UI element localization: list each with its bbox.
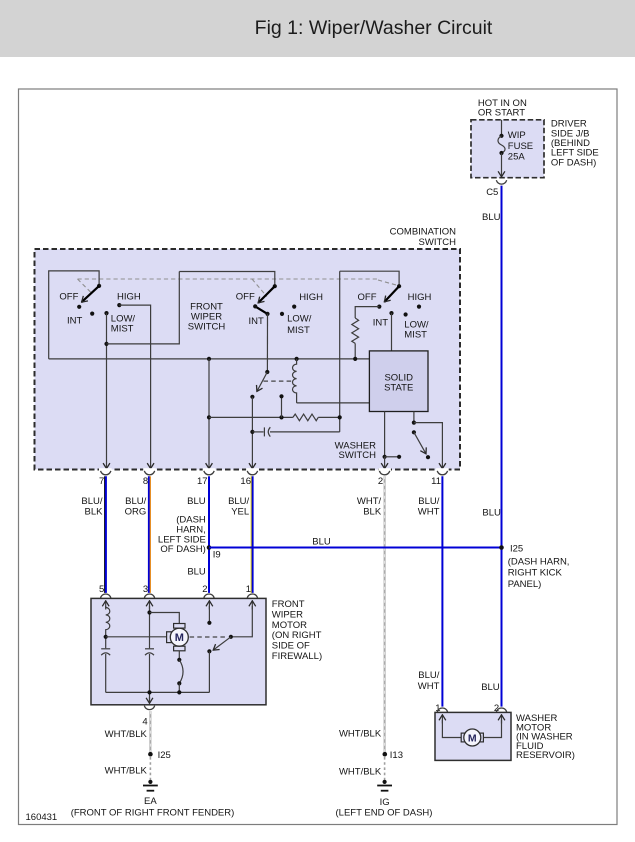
wire relay contact down to pin 16 bbox=[251, 397, 253, 469]
connector cups above front wiper motor bbox=[101, 594, 111, 598]
motor box bottom rail bbox=[106, 691, 210, 693]
entry arrows into washer motor bbox=[441, 715, 443, 724]
S3 contact LOW/MIST bbox=[404, 312, 408, 316]
svg-text:FUSE: FUSE bbox=[508, 141, 533, 152]
svg-text:OF DASH): OF DASH) bbox=[160, 544, 205, 555]
capacitor (noise suppression, pin3 leg) bbox=[145, 648, 154, 650]
svg-text:WHT: WHT bbox=[418, 506, 440, 517]
svg-text:HIGH: HIGH bbox=[299, 292, 323, 303]
connector cups above washer motor bbox=[437, 708, 447, 712]
junction pin17 wire / timing network bbox=[207, 415, 211, 419]
mechanical link relay to coil (dashed) bbox=[264, 380, 294, 382]
svg-text:(DASH HARN,: (DASH HARN, bbox=[508, 556, 570, 567]
svg-text:2: 2 bbox=[202, 584, 207, 595]
capacitor (noise suppression, pin5 leg) bbox=[101, 648, 110, 650]
wire pin 17 drop bbox=[208, 359, 210, 469]
relay switch contact bbox=[250, 395, 254, 399]
svg-text:I9: I9 bbox=[213, 549, 221, 560]
ground EA bbox=[148, 780, 152, 784]
wire I13 to ground IG (dashed) bbox=[384, 757, 386, 780]
wire S1 LOW/MIST contact down to pin 7 bbox=[106, 313, 108, 469]
fuse WIP FUSE 25A bbox=[499, 134, 503, 138]
svg-text:RIGHT KICK: RIGHT KICK bbox=[508, 568, 563, 579]
wire I25 to ground EA (dashed) bbox=[149, 757, 151, 780]
svg-text:11: 11 bbox=[431, 476, 441, 487]
switch S3 pivot bbox=[397, 284, 401, 288]
svg-text:I25: I25 bbox=[158, 750, 171, 761]
svg-text:SWITCH: SWITCH bbox=[188, 322, 226, 333]
wire BLU main feed from C5 to washer motor bbox=[501, 186, 503, 707]
S2 contact LOW/MIST bbox=[280, 312, 284, 316]
svg-text:OFF: OFF bbox=[358, 292, 377, 303]
wire switch 3 top edge to pivot bbox=[340, 271, 399, 286]
wire junction to motor left terminal bbox=[106, 636, 167, 638]
svg-text:WHT/BLK: WHT/BLK bbox=[339, 766, 382, 777]
junction pin5/motor feed bbox=[104, 635, 108, 639]
svg-text:I25: I25 bbox=[510, 543, 523, 554]
svg-text:WIP: WIP bbox=[508, 130, 526, 141]
wire S2 INT contact down to relay pivot bbox=[266, 314, 268, 372]
switch S1 arm (points to OFF) bbox=[82, 286, 100, 302]
svg-text:BLU: BLU bbox=[187, 567, 206, 578]
svg-text:MIST: MIST bbox=[287, 325, 310, 336]
svg-text:7: 7 bbox=[99, 476, 104, 487]
ground IG bbox=[383, 780, 387, 784]
svg-text:INT: INT bbox=[67, 316, 83, 327]
S2 wiper bridge OFF to INT bbox=[255, 306, 267, 314]
svg-text:MOTOR: MOTOR bbox=[272, 620, 307, 631]
wire BLU/WHT pin11 to washer motor pin1 bbox=[441, 476, 443, 706]
linkage drop to switch 2 arm bbox=[252, 279, 267, 297]
junction bus rail / relay coil bbox=[295, 357, 299, 361]
svg-text:PANEL): PANEL) bbox=[508, 579, 542, 590]
wire S3 OFF contact to resistor bbox=[355, 307, 379, 318]
junction bus rail / resistor bbox=[353, 357, 357, 361]
S2 contact OFF bbox=[253, 304, 257, 308]
mechanical linkage dashed line bbox=[78, 278, 379, 280]
svg-text:OFF: OFF bbox=[236, 292, 255, 303]
wire BLU/YEL pin16 to motor pin1 bbox=[250, 476, 252, 593]
S3 contact HIGH bbox=[417, 305, 421, 309]
wire junction to motor top terminal bbox=[150, 613, 180, 624]
svg-text:(ON RIGHT: (ON RIGHT bbox=[272, 630, 322, 641]
svg-text:BLU: BLU bbox=[312, 537, 331, 548]
connector cups below combination switch pins 7 8 17 16 2 11 bbox=[101, 471, 111, 475]
junction box DRIVER SIDE J/B (dashed) bbox=[471, 120, 544, 178]
svg-text:BLU/: BLU/ bbox=[228, 496, 249, 507]
wire timing network left segment bbox=[209, 416, 293, 418]
wire S1 HIGH contact down to pin 8 bbox=[119, 305, 150, 469]
combination switch box (dashed) bbox=[35, 249, 461, 470]
wire BLU/ORG pin8 to motor pin3 bbox=[148, 476, 150, 593]
svg-text:BLU/: BLU/ bbox=[418, 670, 439, 681]
wire WHT/BLK pin2 to ground I13 bbox=[384, 476, 386, 752]
junction pin3 / motor top feed bbox=[147, 610, 151, 614]
wire pin3 drop bbox=[149, 606, 151, 648]
junction on pin7 wire feeding switch 2 bbox=[104, 342, 108, 346]
S1 contact HIGH bbox=[117, 303, 121, 307]
wire feed switch 2 top edge to pivot bbox=[179, 272, 274, 287]
svg-text:M: M bbox=[468, 732, 477, 744]
wire riser feeding switch 3 (down to resistor node) bbox=[339, 271, 341, 432]
svg-text:BLU/: BLU/ bbox=[418, 496, 439, 507]
svg-text:BLK: BLK bbox=[85, 506, 104, 517]
switch S2 arm (points to OFF) bbox=[258, 286, 275, 303]
S2 contact HIGH bbox=[292, 305, 296, 309]
wire fuse to C5 exit arrow bbox=[501, 153, 503, 177]
svg-text:I13: I13 bbox=[390, 750, 403, 761]
front wiper motor box bbox=[91, 598, 266, 704]
linkage drop to switch 3 arm bbox=[378, 280, 397, 285]
wire solid state bottom pin to washer switch bbox=[384, 412, 386, 457]
relay switch arm bbox=[257, 372, 267, 391]
svg-text:16: 16 bbox=[240, 476, 251, 487]
motor armature choke (pin 5) bbox=[106, 606, 110, 648]
svg-text:WIPER: WIPER bbox=[272, 609, 303, 620]
switch S2 pivot bbox=[273, 284, 277, 288]
splice I13 bbox=[383, 752, 388, 757]
switch S1 pivot bbox=[97, 284, 101, 288]
svg-text:ORG: ORG bbox=[125, 506, 147, 517]
washer switch arm pivot bbox=[412, 430, 416, 434]
wire washer switch to pin 2 exit bbox=[384, 457, 386, 469]
wire coil to solid state lower pin bbox=[297, 402, 370, 404]
svg-text:EA: EA bbox=[144, 796, 157, 807]
S1 contact INT bbox=[90, 312, 94, 316]
svg-text:5: 5 bbox=[99, 584, 104, 595]
svg-text:C5: C5 bbox=[486, 187, 498, 198]
wire pin1 to park switch pivot bbox=[233, 606, 252, 637]
svg-text:MIST: MIST bbox=[111, 324, 134, 335]
relay coil (inductor) bbox=[293, 359, 297, 403]
motor M1 (front wiper) bbox=[174, 624, 185, 629]
bus rail across combination switch bbox=[49, 358, 370, 360]
svg-text:SWITCH: SWITCH bbox=[339, 450, 377, 461]
park switch arm bbox=[213, 637, 231, 650]
wire WHT/BLK pin4 to I25 bbox=[149, 711, 151, 752]
svg-text:BLU: BLU bbox=[187, 496, 206, 507]
linkage drop to switch 1 arm bbox=[78, 279, 92, 293]
svg-text:3: 3 bbox=[143, 584, 148, 595]
svg-text:WHT/: WHT/ bbox=[357, 496, 382, 507]
svg-text:FRONT: FRONT bbox=[272, 599, 305, 610]
svg-text:(FRONT OF RIGHT FRONT FENDER): (FRONT OF RIGHT FRONT FENDER) bbox=[71, 807, 235, 818]
svg-text:IG: IG bbox=[380, 797, 390, 808]
svg-text:STATE: STATE bbox=[384, 383, 413, 394]
washer switch arm bbox=[414, 432, 426, 454]
pin 4 exit arrow bbox=[149, 697, 151, 703]
svg-text:25A: 25A bbox=[508, 151, 526, 162]
wires to washer motor terminals bbox=[442, 720, 462, 738]
junction bus rail / pin 17 bbox=[207, 357, 211, 361]
capacitor (wash/wipe timing) bbox=[252, 431, 263, 433]
svg-text:BLU/: BLU/ bbox=[81, 496, 102, 507]
entry arrows into motor box bbox=[105, 601, 107, 610]
svg-text:WHT/BLK: WHT/BLK bbox=[105, 729, 148, 740]
svg-text:8: 8 bbox=[143, 476, 148, 487]
connector cup below pin 4 bbox=[144, 706, 154, 710]
park switch run contact (pin2 stub) bbox=[208, 606, 210, 623]
relay switch pivot bbox=[265, 370, 269, 374]
wire BLU pin17 to motor pin2 bbox=[208, 476, 210, 593]
dashed park-switch link bbox=[190, 636, 228, 638]
S1 contact LOW/MIST bbox=[104, 311, 108, 315]
svg-text:(LEFT END OF DASH): (LEFT END OF DASH) bbox=[336, 808, 433, 819]
splice I25 (right) bbox=[499, 545, 504, 550]
svg-text:SIDE OF: SIDE OF bbox=[272, 641, 310, 652]
svg-text:160431: 160431 bbox=[26, 812, 58, 823]
svg-text:RESERVOIR): RESERVOIR) bbox=[516, 750, 575, 761]
svg-text:1: 1 bbox=[246, 584, 251, 595]
svg-text:INT: INT bbox=[249, 316, 265, 327]
junction resistor line / riser bbox=[338, 415, 342, 419]
resistor (timing network) bbox=[293, 414, 318, 421]
svg-text:WHT/BLK: WHT/BLK bbox=[105, 766, 148, 777]
junction stub contact on resistor line bbox=[279, 415, 283, 419]
park switch pivot bbox=[229, 635, 233, 639]
wire resistor to riser bbox=[318, 416, 340, 418]
motor bottom terminal arc (commutator) bbox=[178, 651, 180, 660]
wire branch to switch 2 feed riser bbox=[107, 272, 180, 344]
svg-text:HIGH: HIGH bbox=[117, 292, 141, 303]
wire BLU branch I9 to I25 bbox=[209, 547, 502, 549]
wire washer feed to pin 11 bbox=[414, 423, 443, 469]
wire solid state bottom pin 2 bbox=[413, 412, 415, 423]
svg-text:M: M bbox=[175, 632, 184, 644]
solid state unit U1 bbox=[369, 351, 428, 412]
splice I9 bbox=[207, 545, 212, 550]
resistor (switch 3 OFF to bus rail) bbox=[352, 318, 359, 343]
svg-text:2: 2 bbox=[378, 476, 383, 487]
wire from HOT feed into fuse bbox=[501, 120, 503, 136]
svg-text:BLU: BLU bbox=[482, 507, 501, 518]
svg-text:SWITCH: SWITCH bbox=[419, 237, 457, 248]
svg-text:OR START: OR START bbox=[478, 107, 525, 118]
svg-text:BLU: BLU bbox=[481, 682, 500, 693]
svg-text:FIREWALL): FIREWALL) bbox=[272, 651, 322, 662]
svg-text:LOW/: LOW/ bbox=[287, 313, 312, 324]
S3 contact OFF bbox=[377, 305, 381, 309]
wire S3 INT contact to solid state top pin bbox=[391, 313, 393, 351]
splice I25 (left) bbox=[148, 752, 153, 757]
washer motor box bbox=[435, 712, 511, 760]
header bar bbox=[0, 0, 635, 57]
switch S3 arm (points to OFF) bbox=[384, 286, 399, 302]
svg-text:BLK: BLK bbox=[363, 506, 382, 517]
svg-text:HIGH: HIGH bbox=[408, 292, 432, 303]
S1 contact OFF bbox=[77, 305, 81, 309]
wire feed to switch 1 pivot from bus rail bbox=[49, 271, 99, 359]
park switch park contact bbox=[207, 649, 211, 653]
white border gaps at pin exits bbox=[99, 468, 112, 471]
washer switch feed node bbox=[412, 421, 416, 425]
svg-text:MIST: MIST bbox=[404, 330, 427, 341]
svg-text:17: 17 bbox=[197, 476, 208, 487]
svg-text:YEL: YEL bbox=[231, 506, 249, 517]
svg-text:OF DASH): OF DASH) bbox=[551, 157, 596, 168]
svg-text:BLU/: BLU/ bbox=[125, 496, 146, 507]
svg-text:BLU: BLU bbox=[482, 212, 501, 223]
svg-text:4: 4 bbox=[142, 717, 147, 728]
motor M2 (washer) bbox=[461, 733, 466, 742]
S3 contact INT bbox=[389, 311, 393, 315]
svg-text:WHT: WHT bbox=[418, 681, 440, 692]
junction pin16 wire / capacitor bbox=[250, 430, 254, 434]
connector C5 cup bbox=[496, 180, 506, 184]
wire resistor to bus rail bbox=[354, 343, 356, 359]
washer switch contacts bbox=[383, 455, 387, 459]
S2 contact INT bbox=[265, 312, 269, 316]
svg-text:WHT/BLK: WHT/BLK bbox=[339, 728, 382, 739]
svg-text:INT: INT bbox=[373, 317, 389, 328]
svg-text:OFF: OFF bbox=[59, 292, 78, 303]
svg-text:Fig 1: Wiper/Washer Circuit: Fig 1: Wiper/Washer Circuit bbox=[255, 17, 493, 39]
wire BLU/BLK pin7 to motor pin5 bbox=[104, 476, 106, 593]
relay alternate contact stub bbox=[281, 396, 283, 417]
